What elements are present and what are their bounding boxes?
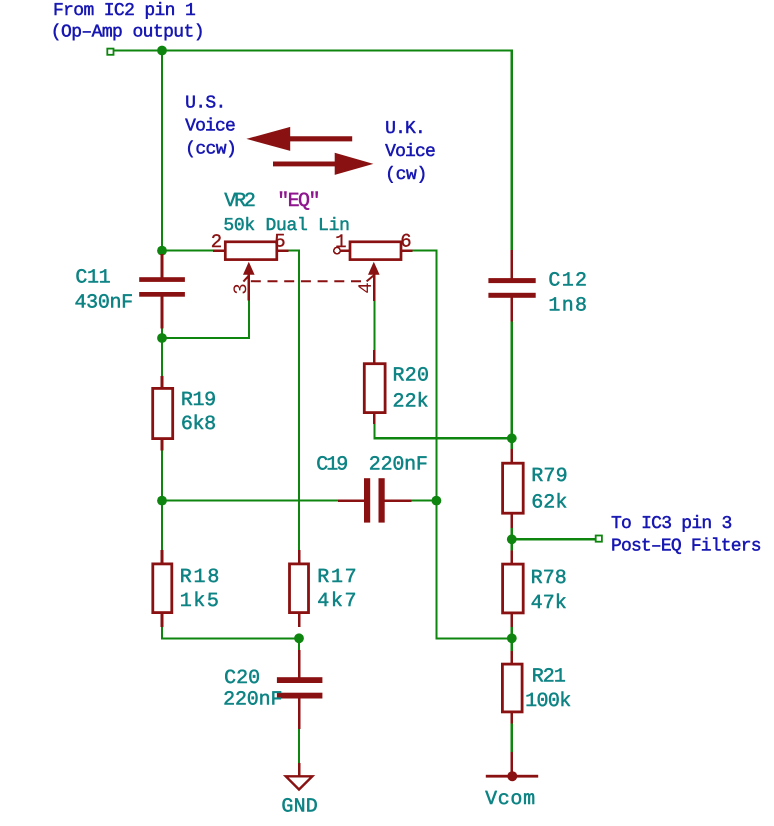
resistor R20 bbox=[364, 364, 385, 413]
svg-text:Post–EQ Filters: Post–EQ Filters bbox=[611, 537, 762, 557]
capacitor C12 bbox=[488, 278, 535, 283]
svg-text:Voice: Voice bbox=[385, 142, 436, 162]
svg-text:R19: R19 bbox=[181, 389, 216, 412]
C19 pin leads bbox=[338, 499, 365, 502]
gang dash diagonal into wiper A bbox=[243, 276, 248, 282]
svg-text:VR2: VR2 bbox=[224, 190, 256, 213]
junction C12 bottom node bbox=[507, 433, 517, 443]
wire R18 bottom corner vertical bbox=[161, 626, 163, 639]
resistor R18 bbox=[153, 564, 172, 613]
svg-text:6: 6 bbox=[400, 230, 411, 252]
annotation arrow left (U.S. voice ccw) bbox=[246, 127, 352, 151]
junction R19 bottom node bbox=[157, 496, 167, 506]
potentiometer VR2 element B body bbox=[350, 242, 401, 260]
wire R19 bottom to R18 top vertical bbox=[161, 450, 163, 551]
C12 pin leads bbox=[511, 250, 514, 279]
resistor R21 bbox=[502, 664, 522, 712]
wire R20 bottom vertical bbox=[373, 423, 375, 439]
R78 pin leads bbox=[511, 551, 514, 564]
wire C11 bottom to pin3 horizontal bbox=[161, 337, 250, 339]
wire C20 bottom to GND vertical bbox=[298, 729, 300, 764]
pot1 wiper stem bbox=[248, 272, 251, 301]
svg-text:C11: C11 bbox=[75, 266, 110, 289]
wire pot1 pin5 to corner bbox=[288, 250, 300, 252]
wire pot2 wiper pin4 vertical bbox=[373, 300, 375, 351]
wire pin3 vertical bbox=[248, 300, 250, 339]
R17 pin leads bbox=[298, 550, 301, 563]
svg-text:U.S.: U.S. bbox=[185, 93, 226, 113]
pot2 pin6 lead bbox=[402, 249, 412, 252]
gang dashed line between wipers bbox=[251, 280, 366, 282]
potentiometer VR2 element B wiper arrow bbox=[368, 262, 380, 275]
svg-text:C19: C19 bbox=[316, 453, 348, 476]
resistor R17 bbox=[290, 564, 309, 613]
svg-text:6k8: 6k8 bbox=[181, 413, 216, 436]
wire top rail vertical right bbox=[511, 50, 513, 251]
svg-text:R78: R78 bbox=[531, 567, 567, 590]
wire node to terminal horizontal bbox=[511, 538, 597, 540]
svg-text:(Op–Amp output): (Op–Amp output) bbox=[51, 23, 205, 43]
svg-text:1: 1 bbox=[335, 231, 346, 253]
Vcom power symbol bbox=[486, 775, 538, 778]
wire pot1 pin5 vertical down bbox=[298, 250, 300, 551]
terminal square left (from IC2) bbox=[107, 49, 113, 55]
wire pot2 pin6 to corner bbox=[412, 250, 437, 252]
svg-text:R20: R20 bbox=[393, 364, 430, 387]
svg-text:R18: R18 bbox=[180, 566, 220, 589]
svg-text:220nF: 220nF bbox=[369, 453, 428, 476]
svg-text:220nF: 220nF bbox=[223, 689, 282, 712]
svg-text:(cw): (cw) bbox=[385, 165, 427, 185]
wire R20 bottom to C12 junction horizontal bbox=[373, 437, 512, 439]
R19 pin leads bbox=[161, 376, 164, 388]
annotation arrow right (U.K. voice cw) bbox=[273, 153, 373, 175]
junction top rail bbox=[157, 46, 167, 56]
svg-text:C12: C12 bbox=[548, 269, 587, 292]
resistor R78 bbox=[503, 564, 524, 613]
potentiometer VR2 element A wiper arrow bbox=[243, 262, 255, 275]
svg-text:"EQ": "EQ" bbox=[277, 190, 320, 213]
junction R78 bottom node bbox=[507, 633, 517, 643]
wire pot2 rail corner to junction bottom horizontal bbox=[435, 637, 512, 639]
ground symbol bbox=[286, 776, 313, 789]
wire R21 bottom to Vcom vertical bbox=[511, 722, 513, 753]
svg-text:Vcom: Vcom bbox=[485, 788, 535, 811]
wire C19 left horizontal bbox=[161, 500, 339, 502]
svg-text:430nF: 430nF bbox=[75, 291, 134, 314]
capacitor C11 bbox=[139, 277, 185, 282]
gang dash diagonal into wiper B bbox=[367, 276, 374, 282]
wire R18 bottom to junction horizontal bbox=[161, 637, 300, 639]
pin number 4 (rotated) bbox=[358, 283, 371, 292]
wire junction to pot1 pin2 bbox=[161, 250, 214, 252]
junction C11 bottom node bbox=[157, 333, 167, 343]
junction C11 top node bbox=[157, 246, 167, 256]
svg-text:47k: 47k bbox=[531, 592, 567, 615]
svg-text:1n8: 1n8 bbox=[548, 295, 587, 318]
capacitor C19 bbox=[364, 478, 370, 522]
R21 pin leads bbox=[511, 651, 514, 663]
wire pot2 pin6 vertical down bbox=[435, 250, 437, 640]
pot1 pin5 lead bbox=[278, 249, 288, 252]
svg-text:C20: C20 bbox=[224, 667, 260, 690]
svg-text:To IC3 pin 3: To IC3 pin 3 bbox=[611, 514, 732, 534]
svg-text:5: 5 bbox=[274, 230, 285, 252]
svg-text:From IC2 pin 1: From IC2 pin 1 bbox=[53, 1, 196, 21]
potentiometer VR2 element A body bbox=[225, 242, 276, 260]
R79 pin leads bbox=[511, 449, 514, 462]
wire R78 bottom to R21 top vertical bbox=[511, 626, 513, 652]
GND pin lead bbox=[298, 763, 301, 777]
wire C20 top green stub bbox=[298, 637, 300, 651]
svg-text:4k7: 4k7 bbox=[317, 590, 356, 613]
wire left rail vertical upper bbox=[161, 50, 163, 257]
resistor R79 bbox=[503, 463, 524, 513]
svg-text:62k: 62k bbox=[531, 491, 567, 514]
svg-text:GND: GND bbox=[281, 796, 317, 819]
svg-text:(ccw): (ccw) bbox=[185, 139, 237, 159]
wire C19 right horizontal bbox=[411, 500, 436, 502]
R20 pin leads bbox=[373, 350, 376, 363]
C20 pin leads bbox=[298, 650, 301, 678]
pin number 3 (rotated) bbox=[233, 285, 246, 294]
R18 pin leads bbox=[161, 550, 164, 563]
wire C12 bottom vertical bbox=[511, 320, 513, 450]
pot2 pin1 lead and circle bbox=[340, 249, 349, 252]
svg-text:R21: R21 bbox=[532, 666, 566, 689]
Vcom pin lead bbox=[511, 752, 514, 775]
svg-text:U.K.: U.K. bbox=[385, 119, 426, 139]
junction R17 bottom node bbox=[294, 633, 304, 643]
wire C11 bottom to R19 vertical bbox=[161, 328, 163, 377]
svg-text:R79: R79 bbox=[531, 465, 567, 488]
junction C19 right node bbox=[432, 496, 442, 506]
capacitor C20 bbox=[277, 677, 323, 683]
svg-text:2: 2 bbox=[211, 231, 222, 253]
wire top rail horizontal bbox=[113, 50, 513, 52]
pot1 pin2 lead bbox=[213, 249, 224, 252]
svg-text:100k: 100k bbox=[525, 690, 571, 713]
pot2 wiper stem bbox=[373, 272, 376, 301]
junction R79 bottom node bbox=[507, 534, 517, 544]
C11 pin leads bbox=[161, 254, 164, 278]
resistor R19 bbox=[153, 388, 173, 438]
svg-text:1k5: 1k5 bbox=[180, 590, 219, 613]
terminal square right (to IC3) bbox=[596, 536, 602, 542]
svg-text:R17: R17 bbox=[317, 566, 356, 589]
svg-text:22k: 22k bbox=[393, 391, 429, 414]
wire R79 bottom to R78 top vertical bbox=[511, 527, 513, 552]
svg-text:Voice: Voice bbox=[185, 116, 236, 136]
svg-text:50k Dual Lin: 50k Dual Lin bbox=[223, 216, 350, 236]
